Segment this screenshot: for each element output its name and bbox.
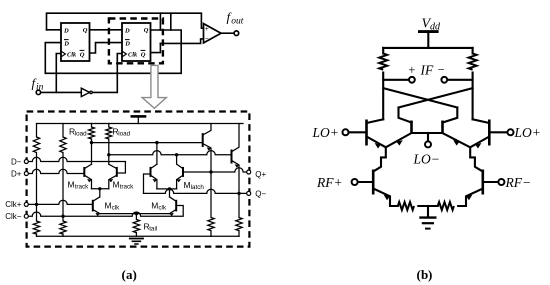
svg-text:D: D <box>63 27 69 34</box>
svg-text:load: load <box>118 131 130 138</box>
svg-text:−: − <box>437 63 445 77</box>
svg-text:+: + <box>408 63 416 77</box>
svg-text:Clk+: Clk+ <box>5 200 22 209</box>
svg-text:D: D <box>124 27 130 34</box>
svg-text:Clk−: Clk− <box>5 212 22 221</box>
svg-text:load: load <box>75 131 87 138</box>
svg-text:in: in <box>36 83 44 93</box>
svg-text:D: D <box>124 41 130 48</box>
svg-text:Q: Q <box>144 27 149 34</box>
svg-text:LO−: LO− <box>413 152 440 167</box>
svg-text:RF−: RF− <box>505 175 532 190</box>
svg-text:LO+: LO+ <box>514 125 541 140</box>
svg-text:LO+: LO+ <box>312 125 339 140</box>
svg-text:D+: D+ <box>11 169 22 178</box>
svg-text:out: out <box>231 17 244 27</box>
svg-text:Q+: Q+ <box>255 170 266 179</box>
svg-text:Clk: Clk <box>67 52 77 59</box>
svg-text:M: M <box>184 180 191 190</box>
svg-text:Q: Q <box>80 51 85 58</box>
svg-text:latch: latch <box>191 184 205 191</box>
svg-text:Q−: Q− <box>255 190 266 199</box>
svg-text:track: track <box>120 184 134 191</box>
svg-text:): ) <box>133 267 137 282</box>
svg-text:M: M <box>68 180 75 190</box>
svg-text:tail: tail <box>149 225 157 232</box>
svg-text:RF+: RF+ <box>316 175 343 190</box>
svg-text:Q: Q <box>83 27 88 34</box>
svg-text:M: M <box>105 200 112 210</box>
svg-text:M: M <box>151 200 158 210</box>
svg-text:D−: D− <box>11 157 22 166</box>
svg-text:clk: clk <box>112 204 121 211</box>
svg-text:D: D <box>63 41 69 48</box>
svg-text:track: track <box>75 184 89 191</box>
svg-text:): ) <box>428 267 432 282</box>
svg-text:IF: IF <box>420 63 434 78</box>
svg-text:dd: dd <box>430 22 441 33</box>
svg-text:Clk: Clk <box>128 52 138 59</box>
svg-text:+: + <box>205 25 209 33</box>
svg-text:M: M <box>113 180 120 190</box>
svg-text:Q: Q <box>141 51 146 58</box>
svg-text:−: − <box>205 35 209 43</box>
svg-text:clk: clk <box>158 204 167 211</box>
